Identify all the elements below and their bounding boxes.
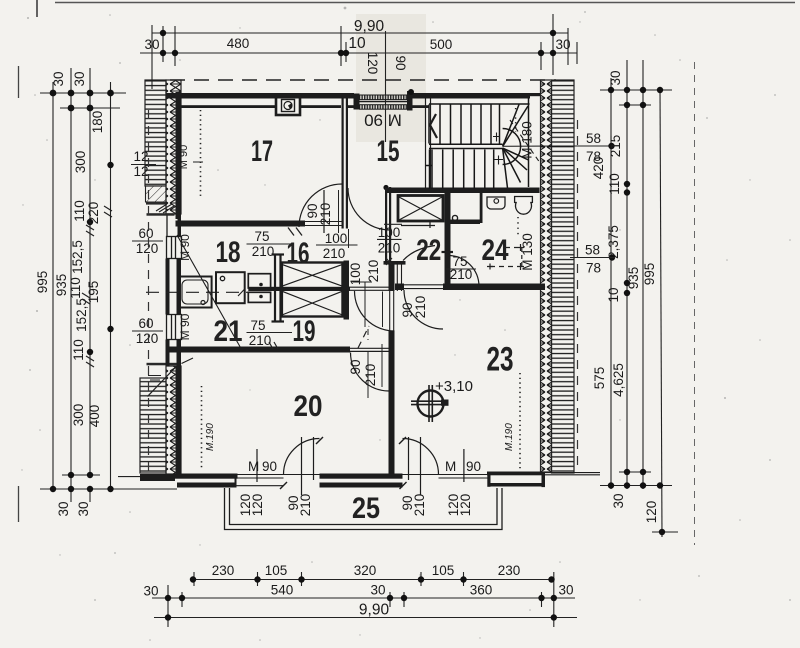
svg-text:M 90: M 90 — [178, 145, 190, 169]
svg-text:210: 210 — [412, 494, 427, 517]
svg-text:17: 17 — [251, 135, 273, 168]
svg-text:30: 30 — [611, 493, 626, 508]
svg-text:215: 215 — [608, 135, 623, 158]
svg-text:4,625: 4,625 — [611, 363, 626, 397]
svg-text:110: 110 — [71, 339, 86, 361]
svg-text:30: 30 — [558, 583, 573, 598]
svg-text:30: 30 — [143, 584, 158, 599]
svg-text:152,5: 152,5 — [74, 298, 89, 332]
svg-text:110: 110 — [72, 200, 87, 222]
svg-text:120: 120 — [136, 241, 159, 256]
svg-text:575: 575 — [592, 367, 607, 390]
svg-text:10: 10 — [606, 287, 621, 302]
svg-text:30: 30 — [144, 37, 159, 52]
svg-text:M.190: M.190 — [504, 423, 515, 451]
svg-text:9,90: 9,90 — [354, 18, 385, 35]
svg-text:18: 18 — [216, 236, 241, 269]
svg-text:M: M — [445, 459, 456, 474]
svg-text:100: 100 — [325, 231, 348, 246]
svg-text:75: 75 — [250, 318, 265, 333]
svg-text:21: 21 — [214, 315, 243, 348]
svg-text:210: 210 — [413, 296, 428, 319]
svg-text:400: 400 — [87, 405, 102, 428]
svg-text:210: 210 — [366, 260, 381, 283]
svg-text:60: 60 — [138, 316, 153, 331]
svg-text:110: 110 — [68, 277, 83, 299]
svg-text:30: 30 — [72, 71, 87, 86]
svg-text:300: 300 — [73, 151, 88, 174]
svg-text:22: 22 — [416, 234, 441, 267]
svg-text:23: 23 — [487, 341, 514, 379]
svg-text:230: 230 — [212, 563, 235, 578]
svg-text:9,90: 9,90 — [359, 602, 390, 619]
svg-text:58: 58 — [585, 243, 600, 258]
svg-text:500: 500 — [430, 37, 453, 52]
svg-text:935: 935 — [626, 267, 641, 290]
svg-text:M 130: M 130 — [520, 233, 535, 271]
svg-text:78: 78 — [586, 261, 601, 276]
svg-text:120: 120 — [250, 494, 265, 517]
svg-text:320: 320 — [354, 563, 377, 578]
svg-text:24: 24 — [482, 234, 509, 267]
svg-text:M: M — [248, 459, 259, 474]
svg-text:15: 15 — [377, 135, 400, 168]
svg-text:+3,10: +3,10 — [435, 378, 473, 395]
svg-text:90: 90 — [466, 459, 481, 474]
svg-text:210: 210 — [323, 246, 346, 261]
svg-text:75: 75 — [254, 229, 269, 244]
svg-text:M 90: M 90 — [178, 313, 192, 340]
svg-text:M 90: M 90 — [364, 111, 402, 130]
svg-text:120: 120 — [136, 331, 159, 346]
svg-text:120: 120 — [365, 52, 380, 75]
svg-text:90: 90 — [393, 55, 408, 70]
svg-text:230: 230 — [498, 563, 521, 578]
svg-text:210: 210 — [378, 241, 401, 256]
svg-text:100: 100 — [378, 225, 401, 240]
svg-text:180: 180 — [90, 111, 105, 134]
svg-text:30: 30 — [76, 501, 91, 516]
svg-text:935: 935 — [54, 274, 69, 297]
svg-text:19: 19 — [293, 315, 316, 348]
svg-text:995: 995 — [35, 271, 50, 294]
svg-text:210: 210 — [252, 244, 275, 259]
svg-text:120: 120 — [644, 501, 659, 524]
svg-text:2,375: 2,375 — [606, 225, 621, 259]
svg-text:30: 30 — [555, 37, 570, 52]
svg-text:30: 30 — [51, 71, 66, 86]
svg-text:16: 16 — [287, 237, 310, 270]
svg-text:90: 90 — [348, 359, 363, 374]
svg-text:78: 78 — [586, 149, 601, 164]
svg-text:210: 210 — [249, 333, 272, 348]
svg-text:152,5: 152,5 — [70, 240, 85, 274]
svg-text:30: 30 — [56, 501, 71, 516]
svg-text:25: 25 — [352, 492, 380, 525]
svg-text:210: 210 — [298, 494, 313, 517]
svg-text:540: 540 — [271, 583, 294, 598]
svg-text:30: 30 — [370, 583, 385, 598]
svg-text:210: 210 — [450, 267, 473, 282]
svg-text:300: 300 — [71, 404, 86, 427]
svg-text:110: 110 — [607, 173, 622, 195]
svg-text:20: 20 — [294, 390, 323, 423]
svg-text:480: 480 — [227, 36, 250, 51]
svg-text:220: 220 — [86, 202, 101, 225]
svg-text:90: 90 — [262, 459, 277, 474]
svg-text:995: 995 — [642, 263, 657, 286]
svg-text:10: 10 — [348, 35, 366, 52]
svg-text:30: 30 — [608, 70, 623, 85]
svg-text:120: 120 — [458, 494, 473, 517]
svg-text:M 180: M 180 — [520, 121, 535, 159]
svg-text:58: 58 — [586, 131, 601, 146]
svg-text:M.190: M.190 — [205, 423, 216, 451]
svg-text:105: 105 — [432, 563, 455, 578]
svg-text:60: 60 — [138, 226, 153, 241]
svg-text:105: 105 — [265, 563, 288, 578]
svg-text:210: 210 — [363, 364, 378, 387]
svg-text:360: 360 — [470, 583, 493, 598]
